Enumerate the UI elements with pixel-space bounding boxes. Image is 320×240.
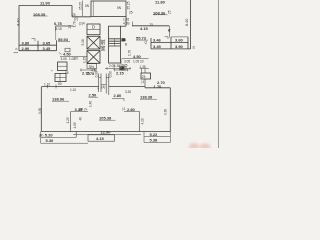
svg-text:4.10: 4.10 bbox=[141, 118, 145, 124]
svg-text:4.05: 4.05 bbox=[73, 122, 77, 128]
svg-text:6.75: 6.75 bbox=[54, 21, 63, 26]
svg-text:2.80: 2.80 bbox=[127, 107, 136, 112]
svg-text:1R5: 1R5 bbox=[122, 64, 128, 68]
svg-text:1.35: 1.35 bbox=[140, 65, 146, 69]
svg-text:1.35: 1.35 bbox=[114, 64, 120, 68]
svg-text:+: + bbox=[51, 69, 53, 73]
svg-text:2R 2+: 2R 2+ bbox=[79, 108, 88, 112]
svg-text:1.40: 1.40 bbox=[89, 101, 93, 107]
svg-text:3.65: 3.65 bbox=[43, 41, 52, 46]
svg-text:3.46: 3.46 bbox=[153, 38, 162, 43]
svg-text:3.60: 3.60 bbox=[175, 38, 184, 43]
svg-text:1.25: 1.25 bbox=[82, 57, 86, 63]
svg-text:55.93: 55.93 bbox=[58, 37, 69, 42]
svg-text:3.80: 3.80 bbox=[22, 41, 31, 46]
svg-text:9: 9 bbox=[15, 48, 19, 50]
svg-text:(4): (4) bbox=[101, 85, 105, 89]
svg-text:5.30: 5.30 bbox=[46, 138, 55, 143]
svg-text:9.30: 9.30 bbox=[38, 108, 42, 114]
svg-text:5.22: 5.22 bbox=[150, 132, 159, 137]
svg-text:0.90: 0.90 bbox=[109, 71, 113, 77]
svg-text:25: 25 bbox=[129, 11, 133, 15]
svg-text:⌠4: ⌠4 bbox=[141, 80, 145, 84]
svg-text:D: D bbox=[92, 25, 95, 30]
svg-text:20: 20 bbox=[140, 60, 144, 64]
svg-text:4.2B: 4.2B bbox=[123, 22, 130, 26]
svg-text:25: 25 bbox=[142, 75, 146, 79]
svg-text:2.90: 2.90 bbox=[22, 46, 31, 51]
svg-text:75: 75 bbox=[150, 23, 154, 27]
svg-text:5.38: 5.38 bbox=[150, 138, 159, 143]
svg-text:138.38: 138.38 bbox=[140, 95, 153, 100]
svg-text:50: 50 bbox=[58, 82, 62, 86]
svg-text:1.05: 1.05 bbox=[133, 60, 139, 64]
svg-text:4.15: 4.15 bbox=[140, 26, 149, 31]
svg-text:0.90: 0.90 bbox=[95, 71, 99, 77]
svg-text:11.90: 11.90 bbox=[40, 1, 51, 6]
svg-text:⌠4: ⌠4 bbox=[122, 107, 126, 111]
svg-text:2.15: 2.15 bbox=[116, 71, 125, 76]
svg-text:(R): (R) bbox=[39, 133, 43, 137]
svg-text:25.25: 25.25 bbox=[127, 1, 131, 9]
svg-text:2.70: 2.70 bbox=[157, 80, 166, 85]
svg-text:20: 20 bbox=[75, 56, 79, 60]
svg-text:5N: 5N bbox=[117, 6, 122, 10]
svg-text:(2): (2) bbox=[74, 17, 78, 21]
svg-text:8.15: 8.15 bbox=[56, 27, 62, 31]
svg-text:3.05: 3.05 bbox=[61, 57, 67, 61]
svg-text:8.40: 8.40 bbox=[16, 18, 20, 25]
svg-text:2.50: 2.50 bbox=[89, 93, 98, 98]
svg-text:2.75: 2.75 bbox=[82, 71, 91, 76]
svg-text:2B: 2B bbox=[122, 38, 126, 42]
svg-text:4.50: 4.50 bbox=[63, 52, 72, 57]
svg-text:5N: 5N bbox=[85, 4, 90, 8]
svg-text:4.50: 4.50 bbox=[133, 54, 142, 59]
svg-text:↗: ↗ bbox=[97, 87, 100, 91]
svg-text:B: B bbox=[125, 43, 127, 47]
svg-text:室: 室 bbox=[101, 45, 106, 52]
svg-text:12.90: 12.90 bbox=[101, 130, 112, 135]
svg-text:1.70: 1.70 bbox=[128, 50, 132, 56]
svg-text:1.10: 1.10 bbox=[44, 83, 50, 87]
svg-text:11.80: 11.80 bbox=[155, 0, 166, 4]
svg-text:3.45: 3.45 bbox=[153, 44, 162, 49]
svg-text:105.38: 105.38 bbox=[99, 116, 112, 121]
svg-text:1.10: 1.10 bbox=[70, 88, 76, 92]
svg-text:前: 前 bbox=[101, 39, 106, 46]
svg-text:40: 40 bbox=[78, 117, 82, 121]
svg-text:2.80: 2.80 bbox=[114, 93, 123, 98]
svg-text:85: 85 bbox=[65, 71, 69, 75]
svg-text:9.30: 9.30 bbox=[164, 109, 168, 115]
svg-text:108.35: 108.35 bbox=[33, 12, 46, 17]
svg-text:8.40: 8.40 bbox=[185, 19, 189, 26]
svg-text:(2)4: (2)4 bbox=[79, 21, 85, 25]
svg-text:25.25: 25.25 bbox=[79, 2, 83, 10]
svg-text:1.70: 1.70 bbox=[73, 21, 77, 27]
svg-text:3.45: 3.45 bbox=[43, 46, 52, 51]
svg-text:138.96: 138.96 bbox=[52, 97, 65, 102]
svg-text:3.90: 3.90 bbox=[175, 44, 184, 49]
svg-text:3.30: 3.30 bbox=[125, 90, 131, 94]
svg-text:1.25: 1.25 bbox=[66, 117, 70, 123]
svg-text:108.36: 108.36 bbox=[153, 11, 166, 16]
svg-text:5.20: 5.20 bbox=[45, 133, 54, 138]
svg-text:25: 25 bbox=[168, 10, 172, 14]
svg-text:4.15: 4.15 bbox=[96, 136, 105, 141]
svg-text:25: 25 bbox=[68, 25, 72, 29]
svg-text:5.18: 5.18 bbox=[81, 39, 85, 45]
